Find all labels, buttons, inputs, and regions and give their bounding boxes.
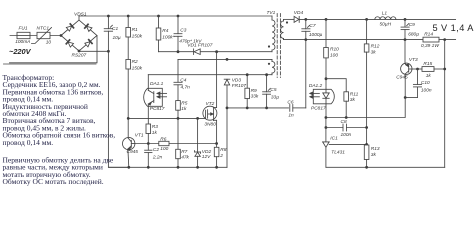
resistor R11 [344, 92, 349, 118]
wire: primary ground rail [108, 166, 227, 168]
resistor R3 [146, 124, 151, 144]
wire: VT3 base wire [412, 68, 422, 70]
wire: input lower line [10, 36, 98, 63]
node: R7 on rail [177, 166, 180, 169]
node: secondary phase dot [286, 21, 288, 23]
svg-text:1000µ: 1000µ [309, 32, 323, 38]
svg-text:PC817: PC817 [150, 106, 165, 112]
text block: transformer notes [3, 73, 116, 186]
svg-text:VD2: VD2 [202, 149, 212, 155]
wire: secondary bottom [284, 39, 424, 41]
svg-text:3k: 3k [350, 97, 356, 103]
capacitor C6 [290, 105, 306, 112]
fuse FU1 [17, 32, 30, 38]
node: base/R3/C2 [147, 142, 150, 145]
node: C9 top [404, 18, 407, 21]
svg-text:провод 0,14 мм.: провод 0,14 мм. [3, 138, 54, 147]
svg-text:3N80: 3N80 [204, 122, 216, 128]
transformer feedback winding [272, 59, 275, 74]
node: R5/R7 on gate wire [177, 117, 180, 120]
svg-text:10µ: 10µ [113, 35, 121, 41]
node: R9 bottom [246, 107, 249, 110]
svg-text:C7: C7 [309, 23, 315, 29]
svg-text:R11: R11 [350, 92, 359, 98]
svg-text:4,7n: 4,7n [181, 85, 191, 91]
wire: LED cathode drop [325, 104, 327, 118]
wire: secondary top [284, 18, 295, 20]
node: R11 bottom [345, 116, 348, 119]
svg-text:VD3: VD3 [232, 78, 242, 84]
node: gate/VT1 collector [127, 117, 130, 120]
node: ref lead joins divider [365, 143, 368, 146]
svg-text:R1: R1 [132, 27, 138, 33]
resistor R8 [214, 144, 219, 168]
svg-text:100: 100 [160, 146, 168, 152]
node: primary phase dot [268, 45, 270, 47]
resistor R12 [364, 19, 369, 145]
svg-text:Обмотку ОС мотать последней.: Обмотку ОС мотать последней. [3, 177, 104, 186]
capacitor C7 [302, 19, 310, 39]
svg-text:RS207: RS207 [72, 53, 87, 59]
wire: aux ground wire [227, 107, 289, 109]
wire: C8 wire [326, 127, 343, 129]
wire: emitter drop to cathode wire [326, 98, 405, 118]
node: C7 bottom [304, 38, 307, 41]
svg-text:VD1 FR107: VD1 FR107 [187, 43, 212, 49]
wire: aux top wire [178, 58, 272, 60]
svg-text:C8: C8 [341, 119, 347, 125]
transistor VT3 [401, 40, 412, 98]
svg-text:R15: R15 [423, 61, 432, 67]
wire: rail riser to aux ground [226, 85, 228, 167]
transformer primary winding [272, 16, 275, 52]
wire: input upper line [10, 35, 61, 37]
node: R4 top on rail [157, 15, 160, 18]
wire: VT3 emitter to C10 bottom [405, 97, 417, 99]
resistor R7 [176, 118, 181, 167]
node: source/base wire [215, 142, 218, 145]
capacitor C3 [174, 16, 182, 52]
wire: TL431 cathode vertical [325, 118, 327, 142]
svg-text:VT2: VT2 [206, 101, 215, 107]
svg-text:3k: 3k [371, 50, 377, 56]
node: R11 tap [325, 77, 328, 80]
node: C1 top on rail [107, 15, 110, 18]
node: emitter/C10 [404, 96, 407, 99]
capacitor C8 [343, 124, 347, 131]
node minus/C1 [107, 50, 110, 53]
svg-text:10: 10 [46, 40, 52, 46]
node: C2 on rail [147, 166, 150, 169]
svg-text:NTC1: NTC1 [37, 26, 50, 32]
svg-text:TL431: TL431 [331, 150, 345, 156]
svg-text:100n: 100n [421, 88, 432, 94]
wire: gate wire [128, 117, 205, 119]
node: VD3 tap on aux wire [226, 58, 229, 61]
wire: clamp wire [159, 51, 194, 53]
MOSFET VT2 [203, 106, 217, 143]
svg-text:150k: 150k [132, 66, 143, 72]
svg-text:VD4: VD4 [294, 10, 304, 16]
svg-text:33k: 33k [251, 94, 259, 100]
svg-text:1k: 1k [152, 130, 158, 136]
svg-text:C4: C4 [180, 78, 186, 84]
node: C5 bottom [265, 107, 268, 110]
node: C9 bottom / VT3 collector [404, 38, 407, 41]
diode VD1 [194, 49, 201, 55]
svg-text:3k: 3k [371, 152, 377, 158]
svg-text:L1: L1 [382, 10, 388, 16]
wire: opto supply wire [148, 74, 272, 76]
node: C10 tap [416, 68, 419, 71]
node: VT1 emitter on rail [127, 166, 130, 169]
svg-text:IC1: IC1 [330, 136, 338, 142]
node: bridge AC left [60, 34, 63, 37]
svg-text:R5: R5 [181, 101, 187, 107]
diode VD3 [224, 79, 230, 85]
wire: secondary ground riser [305, 40, 307, 108]
svg-text:R8: R8 [220, 147, 226, 153]
node: C8 right [365, 126, 368, 129]
node: C8 left [325, 126, 328, 129]
resistor R10 [324, 19, 329, 89]
svg-text:C2: C2 [153, 147, 159, 153]
svg-text:VT3: VT3 [409, 57, 418, 63]
diode VD4 [294, 16, 299, 22]
svg-text:C3: C3 [180, 28, 186, 34]
node: R13 bottom [365, 166, 368, 169]
svg-text:FU1: FU1 [19, 26, 28, 32]
svg-text:33µ: 33µ [271, 94, 279, 100]
capacitor C10 [413, 69, 421, 98]
capacitor C2 [145, 144, 152, 168]
optocoupler DA1.2 [310, 89, 335, 104]
thermistor NTC1 [32, 28, 52, 44]
resistor R1 [126, 16, 131, 60]
svg-text:C6: C6 [287, 99, 293, 105]
svg-text:R3: R3 [152, 124, 158, 130]
node: R14 output [443, 38, 446, 41]
node: R8 on rail [215, 166, 218, 169]
svg-text:R2: R2 [132, 59, 138, 65]
optocoupler DA1.1 [144, 75, 167, 124]
svg-text:1k: 1k [426, 73, 432, 79]
shunt regulator IC1 TL431 [323, 142, 367, 167]
svg-text:~220V: ~220V [9, 47, 32, 56]
node: cathode wire junction [325, 116, 328, 119]
node: R12 top [365, 18, 368, 21]
svg-text:R4: R4 [162, 28, 168, 34]
node: C3 top on rail [177, 15, 180, 18]
wire: output minus bottom [326, 166, 445, 168]
svg-text:FR107: FR107 [232, 83, 247, 89]
wire: +310V top rail [79, 15, 272, 17]
svg-text:12V: 12V [202, 154, 211, 160]
svg-text:100k*: 100k* [162, 35, 174, 41]
resistor R5 [176, 101, 181, 119]
resistor R2 [126, 60, 131, 139]
resistor R15 [422, 67, 445, 72]
svg-text:47k: 47k [181, 154, 189, 160]
wire: drain vertical [216, 52, 218, 108]
node: bridge minus [78, 50, 81, 53]
capacitor C9 [401, 19, 409, 39]
resistor R9 [245, 75, 250, 108]
svg-text:C1: C1 [112, 26, 118, 32]
svg-text:R10: R10 [330, 47, 339, 53]
node: R10 top [325, 18, 328, 21]
svg-text:R13: R13 [371, 146, 380, 152]
svg-text:680µ: 680µ [408, 32, 419, 38]
node: VD2 on gate wire [196, 117, 199, 120]
node: C7 top [304, 18, 307, 21]
resistor R6 [159, 141, 169, 145]
svg-text:5 V 1,4 A: 5 V 1,4 A [433, 23, 474, 33]
node: R15 on bus [443, 68, 446, 71]
separator rule [4, 63, 97, 65]
svg-text:C945: C945 [127, 149, 139, 155]
transformer secondary winding [281, 19, 284, 39]
svg-text:150k: 150k [132, 34, 143, 40]
node: VD2 on rail [196, 166, 199, 169]
svg-text:0,39 1W: 0,39 1W [421, 43, 439, 49]
capacitor C5 [263, 75, 271, 108]
capacitor C1 [104, 16, 112, 51]
resistor R14 [423, 37, 456, 42]
svg-text:C5: C5 [270, 87, 276, 93]
svg-text:R14: R14 [424, 31, 433, 37]
node: C5 top [265, 73, 268, 76]
node: R9 top [246, 73, 249, 76]
transistor VT1 [123, 137, 135, 167]
svg-text:C945: C945 [396, 75, 408, 81]
svg-text:VT1: VT1 [135, 133, 144, 139]
bridge rectifier VDS1 [61, 20, 97, 51]
svg-text:1n: 1n [288, 113, 294, 119]
resistor R13 [364, 145, 369, 167]
capacitor C4 [174, 82, 182, 100]
transformer core [277, 14, 280, 78]
svg-text:R7: R7 [181, 149, 187, 155]
svg-text:100n: 100n [341, 132, 352, 138]
resistor R4 [156, 16, 161, 52]
inductor L1 [375, 17, 396, 20]
node: drain junction on clamp wire [215, 50, 218, 53]
wire: primary ground drop from C1 [108, 51, 128, 167]
wire: output minus bus [444, 40, 446, 168]
svg-text:R9: R9 [251, 88, 257, 94]
svg-text:R12: R12 [371, 44, 380, 50]
svg-text:1k: 1k [181, 106, 187, 112]
svg-text:C9: C9 [409, 22, 415, 28]
svg-text:2: 2 [219, 153, 223, 159]
svg-text:DA1.1: DA1.1 [150, 81, 164, 87]
wire: bridge minus to C1 bottom [79, 50, 108, 52]
svg-text:100: 100 [330, 53, 338, 59]
svg-text:DA1.2: DA1.2 [309, 83, 323, 89]
svg-text:2,2n: 2,2n [152, 155, 163, 161]
svg-text:100mA: 100mA [15, 39, 30, 45]
wire: VT1 base wire [135, 143, 159, 145]
svg-text:50µH: 50µH [380, 22, 392, 28]
svg-text:R6: R6 [160, 136, 166, 142]
node: VD3 line on aux ground [226, 107, 229, 110]
wire: R11 branch [326, 79, 346, 92]
svg-text:C10: C10 [421, 80, 430, 86]
node: feedback phase dot [268, 63, 270, 65]
svg-text:TV1: TV1 [267, 10, 276, 16]
wire: C4 feed vertical [177, 59, 179, 82]
svg-text:PC817: PC817 [311, 105, 326, 111]
zener VD2 [195, 118, 201, 167]
node: C3 bottom [177, 50, 180, 53]
node: R1 top on rail [127, 15, 130, 18]
